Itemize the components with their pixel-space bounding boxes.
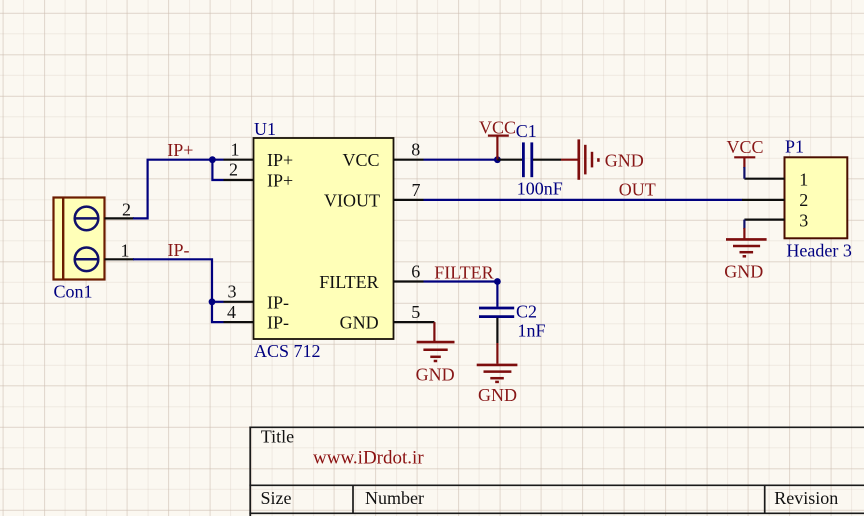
svg-text:2: 2 [229, 160, 238, 180]
junction VCC node [494, 156, 501, 163]
power port VCC (at P1) [727, 137, 764, 179]
wire FILTER (pin6 to C2) [424, 280, 498, 282]
svg-text:4: 4 [227, 302, 236, 322]
ground GND (right of C1, sideways bars) [561, 139, 644, 179]
svg-text:6: 6 [411, 261, 420, 281]
svg-text:Size: Size [261, 488, 292, 508]
U1 pin 3 IP- [224, 282, 290, 313]
U1 pin 6 FILTER [319, 261, 423, 292]
Con1 terminal circle (pin 1) [74, 247, 98, 271]
U1 pin 7 VIOUT [324, 180, 424, 211]
U1 pin 4 IP- [224, 302, 290, 333]
svg-text:FILTER: FILTER [319, 272, 378, 292]
junction IP+ node [209, 156, 216, 163]
svg-text:ACS 712: ACS 712 [254, 341, 321, 361]
svg-text:1: 1 [231, 139, 240, 159]
U1 pin 2 IP+ [224, 160, 294, 191]
svg-text:1: 1 [799, 170, 808, 190]
svg-text:Header 3: Header 3 [786, 240, 851, 260]
P1 pin 3 [744, 210, 808, 230]
svg-text:VCC: VCC [727, 137, 764, 157]
wire VCC net (pin8 to C1) [424, 159, 498, 161]
title block frame [249, 427, 864, 516]
svg-text:C2: C2 [516, 302, 537, 322]
U1 pin 1 IP+ [224, 139, 294, 170]
svg-text:GND: GND [724, 261, 763, 281]
capacitor C2 [479, 308, 514, 343]
U1 pin 5 GND [340, 302, 435, 333]
ground GND (below P1 pin3) [724, 220, 766, 282]
svg-text:VCC: VCC [479, 117, 516, 137]
wire IP+ (Con1 pin2 to U1 pin1) [133, 160, 224, 219]
svg-text:100nF: 100nF [517, 179, 563, 199]
svg-text:8: 8 [411, 139, 420, 159]
svg-text:Number: Number [365, 488, 424, 508]
svg-text:VIOUT: VIOUT [324, 191, 380, 211]
connector Con1 body [54, 198, 105, 280]
svg-text:IP-: IP- [168, 240, 190, 260]
header P1 body [785, 157, 848, 238]
svg-text:GND: GND [605, 150, 644, 170]
P1 pin 2 [742, 190, 808, 210]
svg-text:IP-: IP- [267, 313, 289, 333]
svg-text:OUT: OUT [619, 179, 656, 199]
svg-text:2: 2 [122, 199, 131, 219]
svg-text:GND: GND [478, 385, 517, 405]
IC U1 body [254, 138, 394, 339]
P1 pin 1 [744, 170, 808, 190]
wire FILTER drop to C2 [496, 282, 498, 307]
svg-text:P1: P1 [785, 136, 804, 156]
svg-text:1: 1 [121, 240, 130, 260]
ground GND (below U1 pin5) [416, 322, 455, 384]
Con1 pin 2 [105, 199, 135, 219]
ground GND (below C2) [477, 343, 518, 405]
wire IP- (Con1 pin1 to U1 pin4) [133, 259, 224, 322]
svg-text:IP+: IP+ [167, 140, 193, 160]
Con1 pin 1 [105, 240, 135, 260]
svg-text:www.iDrdot.ir: www.iDrdot.ir [313, 448, 424, 469]
svg-text:Con1: Con1 [54, 282, 93, 302]
Con1 terminal circle (pin 2) [74, 207, 98, 231]
svg-text:GND: GND [340, 313, 379, 333]
svg-text:IP-: IP- [267, 292, 289, 312]
U1 pin 8 VCC [342, 139, 423, 170]
wire branch to U1 pin3 [212, 301, 224, 303]
svg-text:U1: U1 [254, 119, 276, 139]
svg-text:GND: GND [416, 364, 455, 384]
svg-text:Revision: Revision [774, 488, 838, 508]
svg-text:IP+: IP+ [267, 150, 293, 170]
junction IP- node [209, 298, 216, 305]
svg-text:C1: C1 [516, 121, 537, 141]
wire OUT (pin7 to P1 pin2) [424, 199, 743, 201]
svg-text:FILTER: FILTER [434, 262, 493, 282]
svg-text:5: 5 [411, 302, 420, 322]
svg-text:7: 7 [412, 180, 421, 200]
svg-text:3: 3 [799, 210, 808, 230]
svg-text:IP+: IP+ [267, 170, 293, 190]
junction FILTER node [494, 278, 501, 285]
capacitor C1 [497, 142, 561, 177]
wire branch to U1 pin2 [212, 160, 223, 180]
svg-text:Title: Title [261, 427, 294, 447]
svg-text:1nF: 1nF [518, 321, 546, 341]
svg-text:2: 2 [799, 190, 808, 210]
power port VCC (at C1) [479, 117, 516, 159]
svg-text:3: 3 [228, 282, 237, 302]
svg-text:VCC: VCC [342, 150, 379, 170]
